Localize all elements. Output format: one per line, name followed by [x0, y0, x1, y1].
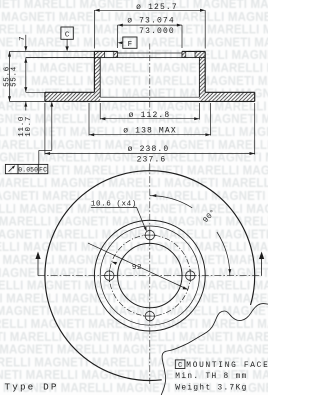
- flange bolt hole left (section): [104, 51, 106, 57]
- skirt inner circle ø112.8: [100, 226, 199, 325]
- section view arrow left: [37, 257, 39, 276]
- break squiggle line: [161, 304, 268, 395]
- svg-text:C: C: [178, 362, 182, 370]
- datum C box and leader to mounting face: [61, 27, 73, 39]
- runout tolerance frame 0.050 FC: [5, 164, 47, 173]
- datum F box and leader: [123, 37, 137, 48]
- 90 degree arc dimension: [150, 196, 192, 208]
- dimension 55.6/55.4 (overall height): [9, 51, 11, 101]
- dimension ø138 MAX: [88, 103, 90, 136]
- hub face line inside hat: [100, 96, 199, 98]
- svg-text:FC: FC: [39, 166, 47, 173]
- bore circle ø73: [118, 243, 182, 307]
- svg-text:ø 138 MAX: ø 138 MAX: [123, 126, 177, 135]
- svg-text:F: F: [128, 41, 133, 49]
- bolt circle ø92 (dash-dot): [109, 235, 190, 316]
- skirt inner walls: [99, 58, 101, 98]
- bore far-side edge seen through hole: [118, 52, 182, 54]
- svg-text:ø 238.0: ø 238.0: [128, 145, 170, 154]
- svg-text:92: 92: [132, 264, 142, 272]
- svg-text:ø 73.074: ø 73.074: [127, 16, 175, 25]
- brake disc section: hatched flange left: [94, 51, 104, 57]
- svg-text:73.000: 73.000: [139, 27, 175, 36]
- svg-text:C: C: [65, 32, 70, 40]
- dimension ø238.0/237.6: [44, 103, 46, 155]
- centerline of section: [149, 44, 151, 111]
- disc bottom surface: [10, 100, 45, 102]
- dimension ø112.8: [99, 103, 101, 120]
- svg-text:ø 125.7: ø 125.7: [136, 3, 178, 12]
- svg-text:Type DP: Type DP: [5, 381, 59, 392]
- section outline: mounting face line (datum C plane): [10, 50, 95, 52]
- flange bolt hole right (section): [185, 51, 187, 57]
- svg-text:ø 112.8: ø 112.8: [129, 111, 171, 120]
- bore side edges: [117, 51, 119, 57]
- hat outer circle ø125.7: [94, 220, 205, 331]
- disc OD edges: [44, 92, 46, 101]
- skirt outer walls: [93, 51, 95, 92]
- dimension 7 (flange thickness): [25, 35, 27, 47]
- flange bottom edges: [26, 57, 118, 59]
- hatched friction ring left: [45, 92, 100, 101]
- svg-text:10.7: 10.7: [25, 116, 33, 137]
- hatched skirt wall right: [199, 58, 205, 93]
- tolerance frame leader to friction surface: [38, 150, 40, 164]
- horizontal centerline / section plane: [38, 275, 262, 277]
- runout symbol arrow: [9, 166, 15, 172]
- outer circle ø238 (broken at lower right): [45, 171, 255, 381]
- svg-text:7: 7: [19, 36, 27, 41]
- dimension ø73.074/73.000 (datum F bore): [118, 24, 182, 26]
- bolt circle diameter 92 dimension: [88, 243, 188, 289]
- mounting face note block: [175, 360, 185, 369]
- svg-text:Min. TH 8 mm: Min. TH 8 mm: [175, 373, 247, 381]
- hatched friction ring right: [199, 92, 254, 101]
- svg-text:MOUNTING FACE: MOUNTING FACE: [186, 362, 268, 370]
- disc top surfaces: [45, 91, 95, 93]
- vertical centerline: [149, 164, 151, 385]
- bolt holes ø10.6 x4: [145, 230, 154, 239]
- svg-text:Weight 3.7Kg: Weight 3.7Kg: [175, 384, 247, 392]
- svg-text:237.6: 237.6: [137, 155, 167, 164]
- hatched skirt wall left: [94, 58, 100, 93]
- hatched flange right: [182, 51, 186, 57]
- dimension 11.0/10.7 (disc thickness): [25, 87, 27, 92]
- section view arrow right: [261, 257, 263, 276]
- svg-text:0.050: 0.050: [18, 166, 38, 173]
- dimension ø125.7: [94, 9, 205, 11]
- svg-text:55.4: 55.4: [11, 66, 19, 87]
